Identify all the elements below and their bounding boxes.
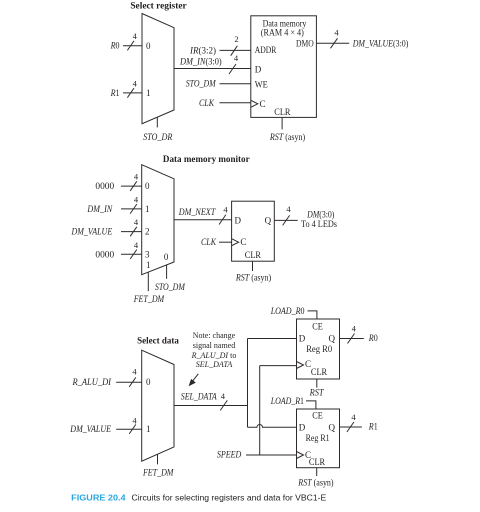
svg-text:4: 4 <box>132 415 137 425</box>
svg-text:Reg R1: Reg R1 <box>306 433 330 443</box>
svg-text:Q: Q <box>329 334 336 344</box>
svg-text:STO_DM: STO_DM <box>186 79 216 89</box>
bus slash Q U4 width 4 <box>283 215 290 225</box>
svg-text:4: 4 <box>132 367 137 377</box>
svg-text:R0: R0 <box>368 333 378 343</box>
data memory block U2 <box>251 16 317 118</box>
svg-text:D: D <box>299 334 306 344</box>
svg-text:CLK: CLK <box>199 98 215 108</box>
wire SPEED <box>246 454 297 456</box>
bus slash SEL_DATA width 4 <box>220 400 227 410</box>
svg-text:R_ALU_DI to: R_ALU_DI to <box>191 351 237 360</box>
svg-text:RST (asyn): RST (asyn) <box>269 132 305 142</box>
svg-text:LOAD_R0: LOAD_R0 <box>270 306 305 316</box>
register Reg R1 <box>297 409 340 468</box>
clock triangle U4 <box>232 239 239 246</box>
svg-text:CLR: CLR <box>274 107 290 117</box>
svg-text:R_ALU_DI: R_ALU_DI <box>72 377 112 387</box>
bus slash DMO width 4 <box>331 38 338 48</box>
svg-text:4: 4 <box>221 391 226 401</box>
wire input2 U3 <box>121 231 142 233</box>
mux U5 select-data <box>142 350 174 461</box>
bus slash width 4 <box>129 424 136 434</box>
svg-text:DMO: DMO <box>296 38 314 48</box>
wire R1 input <box>123 92 142 94</box>
mux U3 data-memory-monitor <box>142 165 174 275</box>
svg-text:0000: 0000 <box>95 249 114 259</box>
wire DM_IN bus U1 to memory D <box>174 68 251 70</box>
svg-text:Select register: Select register <box>130 1 186 11</box>
svg-text:0: 0 <box>145 181 150 191</box>
svg-text:D: D <box>299 422 306 432</box>
bus slash IR width 2 <box>231 46 238 56</box>
svg-text:C: C <box>240 237 246 247</box>
svg-text:(RAM 4 × 4): (RAM 4 × 4) <box>261 27 304 37</box>
wire SEL_DATA bus <box>174 405 248 407</box>
bus slash width 4 <box>129 377 136 387</box>
svg-text:4: 4 <box>134 194 139 204</box>
wire DM_VALUE input U5 <box>116 428 142 430</box>
svg-text:ADDR: ADDR <box>255 45 277 55</box>
svg-text:DM_VALUE: DM_VALUE <box>69 424 111 434</box>
svg-text:IR(3:2): IR(3:2) <box>189 45 216 55</box>
svg-text:1: 1 <box>146 260 151 270</box>
svg-text:R1: R1 <box>110 88 120 98</box>
wire D input Reg R0 <box>248 338 297 340</box>
svg-text:1: 1 <box>146 424 151 434</box>
wire CLK to C U4 <box>219 241 232 243</box>
svg-text:LOAD_R1: LOAD_R1 <box>270 396 304 406</box>
wire R0 input <box>123 45 142 47</box>
svg-text:0: 0 <box>146 41 151 51</box>
svg-text:4: 4 <box>351 412 356 422</box>
wire CLR R0 to RST <box>316 379 318 388</box>
svg-text:3: 3 <box>145 249 150 259</box>
svg-text:DM_NEXT: DM_NEXT <box>178 207 216 217</box>
svg-text:SEL_DATA: SEL_DATA <box>181 392 217 402</box>
wire IR to ADDR <box>220 49 251 51</box>
register U4 (DM register) <box>232 201 275 261</box>
wire D input Reg R1 with hop <box>248 425 297 428</box>
svg-text:Select data: Select data <box>137 335 179 345</box>
wire FET_DM select U3 <box>147 272 149 291</box>
clock triangle R1 <box>297 452 304 459</box>
bus slash input2 width 4 <box>130 227 137 237</box>
svg-text:D: D <box>235 216 242 226</box>
svg-text:RST (asyn): RST (asyn) <box>297 477 333 487</box>
svg-text:Q: Q <box>329 422 336 432</box>
svg-text:DM_IN(3:0): DM_IN(3:0) <box>179 57 222 67</box>
svg-text:STO_DR: STO_DR <box>143 132 173 142</box>
wire LOAD_R1 to CE <box>306 401 316 409</box>
svg-text:Note: change: Note: change <box>193 331 236 340</box>
bus slash input1 width 4 <box>130 204 137 214</box>
bus slash R0 out width 4 <box>348 334 355 344</box>
wire CLR to RST U4 <box>252 261 254 271</box>
mux U1 select-register <box>142 14 174 124</box>
svg-text:To 4 LEDs: To 4 LEDs <box>301 219 337 229</box>
wire CLR to RST U2 <box>281 117 283 129</box>
wire Q output R0 <box>340 338 364 340</box>
svg-text:Data memory monitor: Data memory monitor <box>163 154 250 164</box>
svg-text:Reg R0: Reg R0 <box>306 344 332 354</box>
wire DMO output <box>316 42 349 44</box>
svg-text:FIGURE 20.4: FIGURE 20.4 <box>71 492 126 502</box>
wire input0 U3 <box>121 185 142 187</box>
wire input3 U3 <box>121 253 142 255</box>
wire input1 U3 <box>121 208 142 210</box>
svg-text:CLR: CLR <box>245 250 261 260</box>
svg-text:4: 4 <box>134 172 139 182</box>
svg-text:DM_VALUE: DM_VALUE <box>71 227 113 237</box>
wire C input Reg R0 <box>260 365 297 367</box>
svg-text:4: 4 <box>234 53 239 63</box>
wire Q output U4 <box>274 219 297 221</box>
bus slash R0 width 4 <box>127 41 134 51</box>
svg-text:Q: Q <box>265 216 272 226</box>
svg-text:CLR: CLR <box>309 457 325 467</box>
wire net A vertical (SEL_DATA to D inputs) <box>247 339 249 428</box>
svg-text:STO_DM: STO_DM <box>155 282 185 292</box>
wire STO_DM to WE <box>220 83 251 85</box>
svg-text:RST (asyn): RST (asyn) <box>235 273 271 283</box>
wire LOAD_R0 to CE <box>308 311 317 319</box>
svg-text:FET_DM: FET_DM <box>133 294 165 304</box>
svg-text:SEL_DATA: SEL_DATA <box>196 360 233 369</box>
svg-text:C: C <box>260 99 266 109</box>
svg-text:0: 0 <box>164 252 169 262</box>
svg-text:R1: R1 <box>368 422 378 432</box>
svg-text:R0: R0 <box>110 41 120 51</box>
bus slash input3 width 4 <box>130 250 137 260</box>
svg-text:signal named: signal named <box>193 341 235 350</box>
svg-text:4: 4 <box>133 78 138 88</box>
wire STO_DR select <box>156 117 158 127</box>
svg-text:1: 1 <box>145 204 150 214</box>
wire DM_NEXT bus <box>174 219 232 221</box>
svg-text:4: 4 <box>286 204 291 214</box>
svg-text:0: 0 <box>146 377 151 387</box>
svg-text:0000: 0000 <box>95 181 114 191</box>
note arrow <box>193 374 199 381</box>
svg-text:RST: RST <box>309 387 325 397</box>
svg-text:DM_IN: DM_IN <box>86 204 113 214</box>
clock triangle R0 <box>297 362 304 369</box>
wire Q output R1 <box>340 426 362 428</box>
wire net B vertical (SPEED to clocks) <box>259 366 261 455</box>
svg-text:4: 4 <box>133 31 138 41</box>
bus slash input0 width 4 <box>130 181 137 191</box>
wire STO_DM select U3 <box>166 265 168 279</box>
svg-text:2: 2 <box>234 34 238 44</box>
svg-text:4: 4 <box>352 324 357 334</box>
svg-text:4: 4 <box>334 28 339 38</box>
svg-text:2: 2 <box>145 227 150 237</box>
wire R_ALU_DI input <box>116 381 142 383</box>
svg-text:Circuits for selecting registe: Circuits for selecting registers and dat… <box>132 492 327 502</box>
svg-text:CE: CE <box>312 322 323 332</box>
bus slash DM_IN width 4 <box>229 64 236 74</box>
svg-text:WE: WE <box>255 79 268 89</box>
svg-text:4: 4 <box>223 205 228 215</box>
wire FET_DM select U5 <box>157 454 159 464</box>
svg-text:1: 1 <box>146 88 151 98</box>
clock triangle U2 <box>251 100 258 107</box>
svg-text:SPEED: SPEED <box>217 450 242 460</box>
svg-text:CLR: CLR <box>311 367 327 377</box>
svg-text:4: 4 <box>134 240 139 250</box>
bus slash DM_NEXT width 4 <box>219 215 226 225</box>
bus slash R1 width 4 <box>127 88 134 98</box>
svg-text:FET_DM: FET_DM <box>142 468 174 478</box>
wire CLR R1 to RST <box>316 468 318 476</box>
register Reg R0 <box>297 319 340 379</box>
svg-text:D: D <box>255 65 262 75</box>
svg-text:DM_VALUE(3:0): DM_VALUE(3:0) <box>352 38 409 48</box>
wire CLK to C <box>220 102 251 104</box>
bus slash R1 out width 4 <box>347 422 354 432</box>
svg-text:CLK: CLK <box>201 237 217 247</box>
svg-text:CE: CE <box>312 410 323 420</box>
svg-text:4: 4 <box>134 217 139 227</box>
